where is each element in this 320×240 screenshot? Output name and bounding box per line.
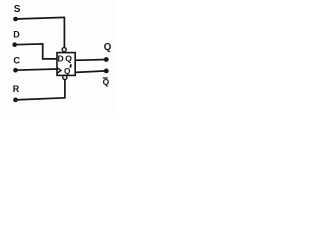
preset bubble (active-low S) xyxy=(62,48,66,52)
prime mark of Q' xyxy=(69,64,72,67)
flip-flop U1 body xyxy=(57,53,75,76)
wire R to clear bubble xyxy=(16,80,65,100)
node S terminal dot xyxy=(13,17,18,22)
wire D to flip-flop D pin xyxy=(15,44,58,59)
node Q-bar terminal dot xyxy=(104,69,109,74)
node R terminal dot xyxy=(13,98,18,103)
svg-text:Q: Q xyxy=(104,42,112,53)
svg-text:C: C xyxy=(13,56,20,66)
wire S to preset bubble xyxy=(16,17,65,47)
svg-text:S: S xyxy=(14,4,21,15)
node Q terminal dot xyxy=(104,57,109,62)
clock chevron xyxy=(57,68,61,74)
wire Q output xyxy=(75,59,106,62)
svg-text:Q: Q xyxy=(65,54,72,64)
svg-text:D: D xyxy=(58,54,64,64)
wire C to clock pin xyxy=(16,69,58,70)
node D terminal dot xyxy=(12,42,17,47)
node C terminal dot xyxy=(13,68,18,73)
svg-text:R: R xyxy=(13,84,20,94)
clear bubble (active-low R) xyxy=(63,75,67,79)
wire Q-bar output xyxy=(75,71,106,73)
svg-text:D: D xyxy=(13,29,20,39)
overline of Q-bar xyxy=(103,77,108,79)
